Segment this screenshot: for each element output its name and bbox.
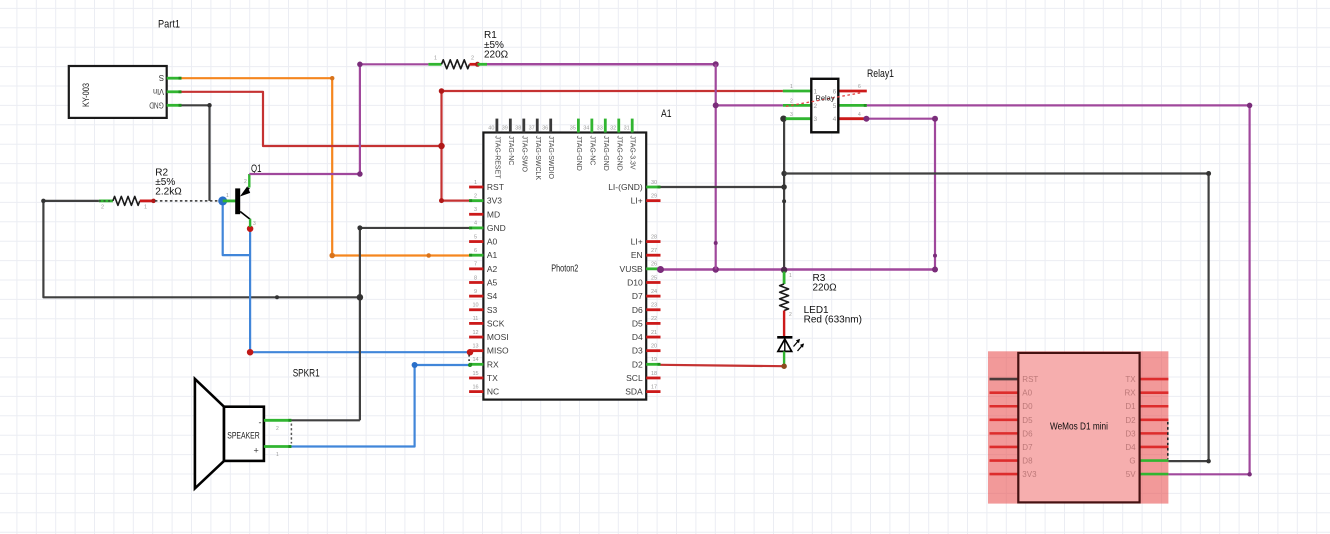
svg-text:SCK: SCK: [487, 318, 505, 328]
Photon2 pin 2 3V3: [469, 199, 483, 202]
svg-text:15: 15: [472, 371, 478, 377]
wire black GND to speaker net: [360, 228, 471, 420]
svg-text:3V3: 3V3: [487, 196, 502, 206]
Photon2 pin 4 GND: [469, 227, 483, 230]
svg-text:TX: TX: [1125, 375, 1136, 384]
svg-text:SCL: SCL: [626, 373, 643, 383]
svg-text:1: 1: [789, 273, 792, 279]
svg-text:JTAG-GND: JTAG-GND: [615, 136, 622, 171]
svg-text:3: 3: [253, 221, 256, 227]
svg-text:23: 23: [651, 303, 657, 309]
wire blue RX from speaker plus: [291, 365, 470, 447]
wire purple Q1 top to R1: [249, 64, 360, 174]
resistor R3 220: [781, 267, 788, 274]
svg-text:MD: MD: [487, 209, 500, 219]
svg-text:1: 1: [144, 205, 147, 211]
speaker dashed pin link: [290, 424, 292, 444]
svg-text:D4: D4: [1125, 443, 1136, 452]
svg-text:D7: D7: [632, 291, 643, 301]
svg-text:RST: RST: [1022, 375, 1038, 384]
Photon2 pin 12 MOSI: [469, 336, 483, 339]
svg-text:12: 12: [472, 330, 478, 336]
svg-text:6: 6: [833, 89, 837, 96]
WeMos pin D3: [1140, 432, 1169, 435]
svg-text:+: +: [254, 445, 259, 455]
Photon2 pin 39 JTAG-NC: [509, 119, 512, 133]
svg-text:D10: D10: [627, 277, 643, 287]
speaker pin minus: [264, 419, 292, 422]
svg-text:A5: A5: [487, 277, 498, 287]
svg-text:D0: D0: [1022, 402, 1033, 411]
WeMos pin D0: [990, 405, 1019, 408]
svg-text:RST: RST: [487, 182, 504, 192]
wire black LI-(GND) to relay pin3 net: [661, 186, 785, 188]
svg-text:JTAG-NC: JTAG-NC: [588, 136, 595, 166]
svg-text:S4: S4: [487, 291, 498, 301]
svg-text:D5: D5: [1022, 416, 1033, 425]
Photon2 pin 11 SCK: [469, 322, 483, 325]
wire black to speaker minus: [291, 419, 360, 421]
wire black relay pin3 vertical: [783, 119, 785, 271]
Photon2 pin 33 JTAG-GND: [604, 119, 607, 133]
svg-text:36: 36: [542, 125, 548, 131]
wire red 3V3 net: vertical, to relay pin1 and to 3V3: [440, 91, 442, 201]
speaker SPKR1 symbol: [195, 379, 224, 489]
svg-text:9: 9: [474, 289, 477, 295]
svg-text:RX: RX: [487, 359, 499, 369]
svg-text:1: 1: [790, 84, 793, 90]
wire purple relay pin4: [866, 118, 935, 120]
svg-text:SPKR1: SPKR1: [293, 368, 320, 380]
svg-text:A1: A1: [487, 250, 498, 260]
Photon2 pin 32 JTAG-GND: [617, 119, 620, 133]
svg-text:19: 19: [651, 357, 657, 363]
KY-003 pin GND: [167, 104, 182, 107]
svg-text:34: 34: [583, 125, 589, 131]
WeMos dashed D2-G: [1167, 422, 1169, 459]
Photon2 pin 17 SDA: [646, 390, 660, 393]
svg-text:MOSI: MOSI: [487, 332, 509, 342]
Photon2 pin 18 SCL: [646, 377, 660, 380]
WeMos pin 5V: [1140, 473, 1169, 476]
svg-text:D2: D2: [632, 359, 643, 369]
LED LED1: [777, 336, 792, 339]
wire purple relay pin2 from R1 node: [716, 104, 783, 106]
svg-text:S: S: [159, 73, 164, 82]
wire purple R1 right to VUSB net: [487, 63, 716, 66]
svg-text:28: 28: [651, 234, 657, 240]
Photon2 pin 19 D2: [646, 363, 660, 366]
svg-text:30: 30: [651, 180, 657, 186]
svg-text:JTAG-SWCLK: JTAG-SWCLK: [534, 136, 541, 181]
svg-text:2: 2: [244, 179, 247, 185]
Photon2 pin 14 RX: [469, 363, 483, 366]
svg-text:D6: D6: [1022, 429, 1033, 438]
svg-text:KY-003: KY-003: [81, 83, 92, 107]
Photon2 pin 16 NC: [469, 390, 483, 393]
svg-text:A1: A1: [661, 108, 672, 120]
svg-text:D3: D3: [632, 346, 643, 356]
WeMos pin G: [1140, 459, 1169, 462]
svg-text:VUSB: VUSB: [620, 264, 643, 274]
Photon2 pin 20 D3: [646, 349, 660, 352]
svg-text:25: 25: [651, 275, 657, 281]
KY-003 pin S: [167, 77, 182, 80]
svg-text:2: 2: [814, 103, 818, 110]
LED1 arrows: [794, 340, 800, 347]
svg-text:18: 18: [651, 371, 657, 377]
Photon2 pin 28 LI+: [646, 240, 660, 243]
svg-text:RX: RX: [1124, 389, 1136, 398]
svg-text:14: 14: [472, 357, 478, 363]
svg-text:21: 21: [651, 330, 657, 336]
svg-text:1: 1: [226, 193, 229, 199]
WeMos pin 3V3: [990, 473, 1019, 476]
svg-text:A0: A0: [1022, 389, 1032, 398]
svg-text:D1: D1: [1125, 402, 1136, 411]
WeMos pin D4: [1140, 446, 1169, 449]
svg-text:TX: TX: [487, 373, 498, 383]
svg-text:7: 7: [474, 262, 477, 268]
Photon2 pin 37 JTAG-SWCLK: [536, 119, 539, 133]
svg-text:38: 38: [515, 125, 521, 131]
relay U1 pins left: [783, 90, 811, 93]
KY-003 pin VIn: [167, 90, 182, 93]
svg-text:31: 31: [624, 125, 630, 131]
Photon2 pin 9 S4: [469, 295, 483, 298]
wire purple R1 to VUSB vertical: [715, 64, 717, 269]
svg-text:2: 2: [276, 426, 279, 432]
wire black R2 left to ground net: [43, 201, 360, 297]
svg-text:6: 6: [474, 248, 477, 254]
svg-text:JTAG-GND: JTAG-GND: [575, 136, 582, 171]
svg-text:JTAG-RESET: JTAG-RESET: [493, 136, 500, 180]
Photon2 pin 35 JTAG-GND: [577, 119, 580, 133]
WeMos pin D7: [990, 446, 1019, 449]
Photon2 pin 6 A1: [469, 254, 483, 257]
svg-text:-: -: [259, 417, 262, 427]
svg-text:32: 32: [610, 125, 616, 131]
WeMos pin D1: [1140, 405, 1169, 408]
svg-text:2: 2: [790, 99, 793, 105]
svg-text:Red (633nm): Red (633nm): [804, 315, 862, 326]
Photon2 pin 1 RST: [469, 186, 483, 189]
svg-text:D4: D4: [632, 332, 643, 342]
svg-text:MISO: MISO: [487, 346, 509, 356]
wire blue Q1 base to emitter net: [223, 201, 250, 255]
wire black KY-003 GND down to R2 net: [182, 105, 210, 201]
Photon2 pin 34 JTAG-NC: [590, 119, 593, 133]
Photon2 pin 15 TX: [469, 377, 483, 380]
svg-text:2.2kΩ: 2.2kΩ: [155, 187, 182, 198]
svg-text:24: 24: [651, 289, 657, 295]
svg-text:Relay1: Relay1: [867, 68, 894, 80]
relay pin3 junction dot: [780, 115, 787, 122]
WeMos pin D2: [1140, 419, 1169, 422]
Photon2 pin 29 LI+: [646, 199, 660, 202]
svg-text:D7: D7: [1022, 443, 1033, 452]
svg-text:40: 40: [488, 125, 494, 131]
WeMos pin RX: [1140, 391, 1169, 394]
svg-text:20: 20: [651, 343, 657, 349]
svg-text:Photon2: Photon2: [551, 264, 578, 275]
svg-text:NC: NC: [487, 387, 499, 397]
svg-text:1: 1: [814, 89, 818, 96]
Photon2 pin 5 A0: [469, 240, 483, 243]
Photon2 pin 22 D5: [646, 322, 660, 325]
Photon2 pin 8 A5: [469, 281, 483, 284]
svg-text:JTAG-SWDIO: JTAG-SWDIO: [547, 136, 554, 180]
svg-text:D5: D5: [632, 318, 643, 328]
wire red KY-003 VIn to 3V3 net: [182, 92, 442, 146]
svg-text:29: 29: [651, 193, 657, 199]
svg-text:G: G: [1129, 457, 1135, 466]
svg-text:GND: GND: [487, 223, 506, 233]
relay Relay1 body: [811, 79, 838, 133]
svg-text:3: 3: [790, 112, 793, 118]
svg-text:39: 39: [502, 125, 508, 131]
Photon2 pin 31 JTAG-3.3V: [631, 119, 634, 133]
WeMos pin TX: [1140, 378, 1169, 381]
svg-text:VIn: VIn: [153, 87, 164, 96]
wire red LED to D2: [661, 365, 785, 366]
wire dashed R2 to Q1 base: [155, 200, 223, 202]
svg-text:A0: A0: [487, 237, 498, 247]
svg-text:2: 2: [474, 193, 477, 199]
svg-text:1: 1: [434, 56, 437, 62]
svg-text:220Ω: 220Ω: [484, 50, 509, 61]
svg-text:JTAG-3.3V: JTAG-3.3V: [629, 136, 636, 170]
svg-text:33: 33: [597, 125, 603, 131]
svg-text:4: 4: [858, 112, 861, 118]
wire purple VUSB net horizontal: [661, 268, 936, 271]
svg-text:11: 11: [473, 316, 479, 322]
svg-text:17: 17: [651, 384, 657, 390]
svg-text:D8: D8: [1022, 457, 1033, 466]
Photon2 pin 36 JTAG-SWDIO: [549, 119, 552, 133]
svg-text:2: 2: [789, 312, 792, 318]
Photon2 pin 40 JTAG-RESET: [495, 119, 498, 133]
svg-text:16: 16: [472, 384, 478, 390]
Photon2 pin 24 D7: [646, 295, 660, 298]
svg-text:37: 37: [529, 125, 535, 131]
svg-text:Part1: Part1: [158, 19, 180, 31]
wire blue Q1 emitter down to MISO: [250, 229, 470, 353]
Photon2 pin 3 MD: [469, 213, 483, 216]
svg-text:27: 27: [651, 248, 657, 254]
wire black to WeMos G: [784, 174, 1209, 462]
Photon2 pin 13 MISO: [469, 349, 483, 352]
relay pins right: [838, 90, 867, 93]
svg-text:SDA: SDA: [625, 387, 643, 397]
resistor R2 2.2k: [99, 199, 113, 202]
svg-text:D2: D2: [1125, 416, 1136, 425]
svg-text:JTAG-GND: JTAG-GND: [602, 136, 609, 171]
WeMos pin D6: [990, 432, 1019, 435]
WeMos pin RST: [990, 378, 1019, 381]
svg-text:JTAG-NC: JTAG-NC: [507, 136, 514, 166]
svg-text:8: 8: [474, 275, 477, 281]
svg-text:SPEAKER: SPEAKER: [227, 431, 260, 442]
wire purple left lead: [360, 63, 429, 65]
Photon2 pin 21 D4: [646, 336, 660, 339]
Photon2 pin 10 S3: [469, 308, 483, 311]
svg-text:4: 4: [474, 221, 477, 227]
svg-text:D3: D3: [1125, 429, 1136, 438]
wire orange KY-003 S to Photon2 A1: [182, 78, 470, 255]
Photon2 pin 23 D6: [646, 308, 660, 311]
WeMos pin D5: [990, 419, 1019, 422]
svg-text:A2: A2: [487, 264, 498, 274]
svg-text:5: 5: [474, 234, 477, 240]
speaker pin plus: [264, 445, 292, 448]
svg-text:D6: D6: [632, 305, 643, 315]
svg-text:JTAG-SWO: JTAG-SWO: [520, 136, 527, 173]
Photon2 pin 7 A2: [469, 267, 483, 270]
svg-text:3: 3: [474, 207, 477, 213]
svg-text:GND: GND: [149, 100, 164, 109]
wire dashed MISO-RX: [468, 355, 470, 363]
svg-text:S3: S3: [487, 305, 498, 315]
WeMos pin A0: [990, 391, 1019, 394]
svg-text:220Ω: 220Ω: [813, 283, 838, 294]
svg-text:6: 6: [858, 84, 861, 90]
svg-text:EN: EN: [631, 250, 643, 260]
svg-text:LI+: LI+: [631, 237, 643, 247]
svg-text:22: 22: [651, 316, 657, 322]
svg-text:LI+: LI+: [631, 196, 643, 206]
svg-text:35: 35: [570, 125, 576, 131]
svg-text:13: 13: [472, 343, 478, 349]
svg-text:3: 3: [814, 116, 818, 123]
Photon2 pin 38 JTAG-SWO: [522, 119, 525, 133]
module WeMos D1 mini body: [1018, 353, 1139, 503]
svg-text:10: 10: [472, 303, 478, 309]
Photon2 pin 30 LI-(GND): [646, 186, 660, 189]
svg-text:1: 1: [474, 180, 477, 186]
svg-text:5: 5: [833, 103, 837, 110]
svg-text:4: 4: [833, 116, 837, 123]
svg-text:1: 1: [276, 452, 279, 458]
svg-text:WeMos D1 mini: WeMos D1 mini: [1050, 421, 1108, 433]
Photon2 pin 25 D10: [646, 281, 660, 284]
WeMos pin D8: [990, 459, 1019, 462]
module KY-003: [69, 66, 167, 118]
wire purple relay pin5 to WeMos 5V: [867, 105, 1250, 474]
svg-text:2: 2: [101, 205, 104, 211]
svg-text:LI-(GND): LI-(GND): [608, 182, 643, 192]
Photon2 pin 27 EN: [646, 254, 660, 257]
relay internal dashed switch: [786, 93, 862, 107]
WeMos highlight: [988, 351, 1168, 503]
svg-text:2: 2: [471, 56, 474, 62]
wire purple relay pin4 down to VUSB: [934, 119, 936, 270]
Photon2 pin 26 VUSB: [646, 267, 660, 270]
svg-text:5V: 5V: [1126, 470, 1136, 479]
svg-text:26: 26: [651, 262, 657, 268]
svg-text:3V3: 3V3: [1022, 470, 1037, 479]
